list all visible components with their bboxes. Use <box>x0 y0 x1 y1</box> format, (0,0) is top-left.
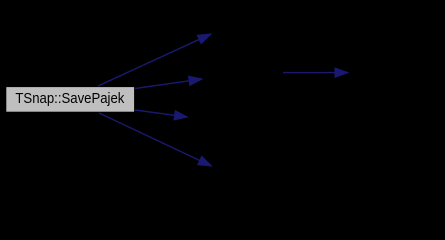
edge 1: SavePajek -> node A (line) <box>98 34 211 86</box>
edge 4: SavePajek -> node D (line) <box>99 113 212 166</box>
edge 1 arrowhead <box>197 34 211 44</box>
edge 2 arrowhead <box>188 76 202 85</box>
node TSnap::SavePajek <box>6 86 135 112</box>
edge 3: SavePajek -> node C (line) <box>135 110 188 120</box>
svg-text:TSnap::SavePajek: TSnap::SavePajek <box>15 90 124 107</box>
edge 5: node B -> node E (line) <box>283 68 348 77</box>
edge 2: SavePajek -> node B (line) <box>135 76 202 88</box>
edge 4 arrowhead <box>198 156 212 166</box>
edge 5 arrowhead <box>335 68 348 77</box>
edge 3 arrowhead <box>174 111 188 120</box>
